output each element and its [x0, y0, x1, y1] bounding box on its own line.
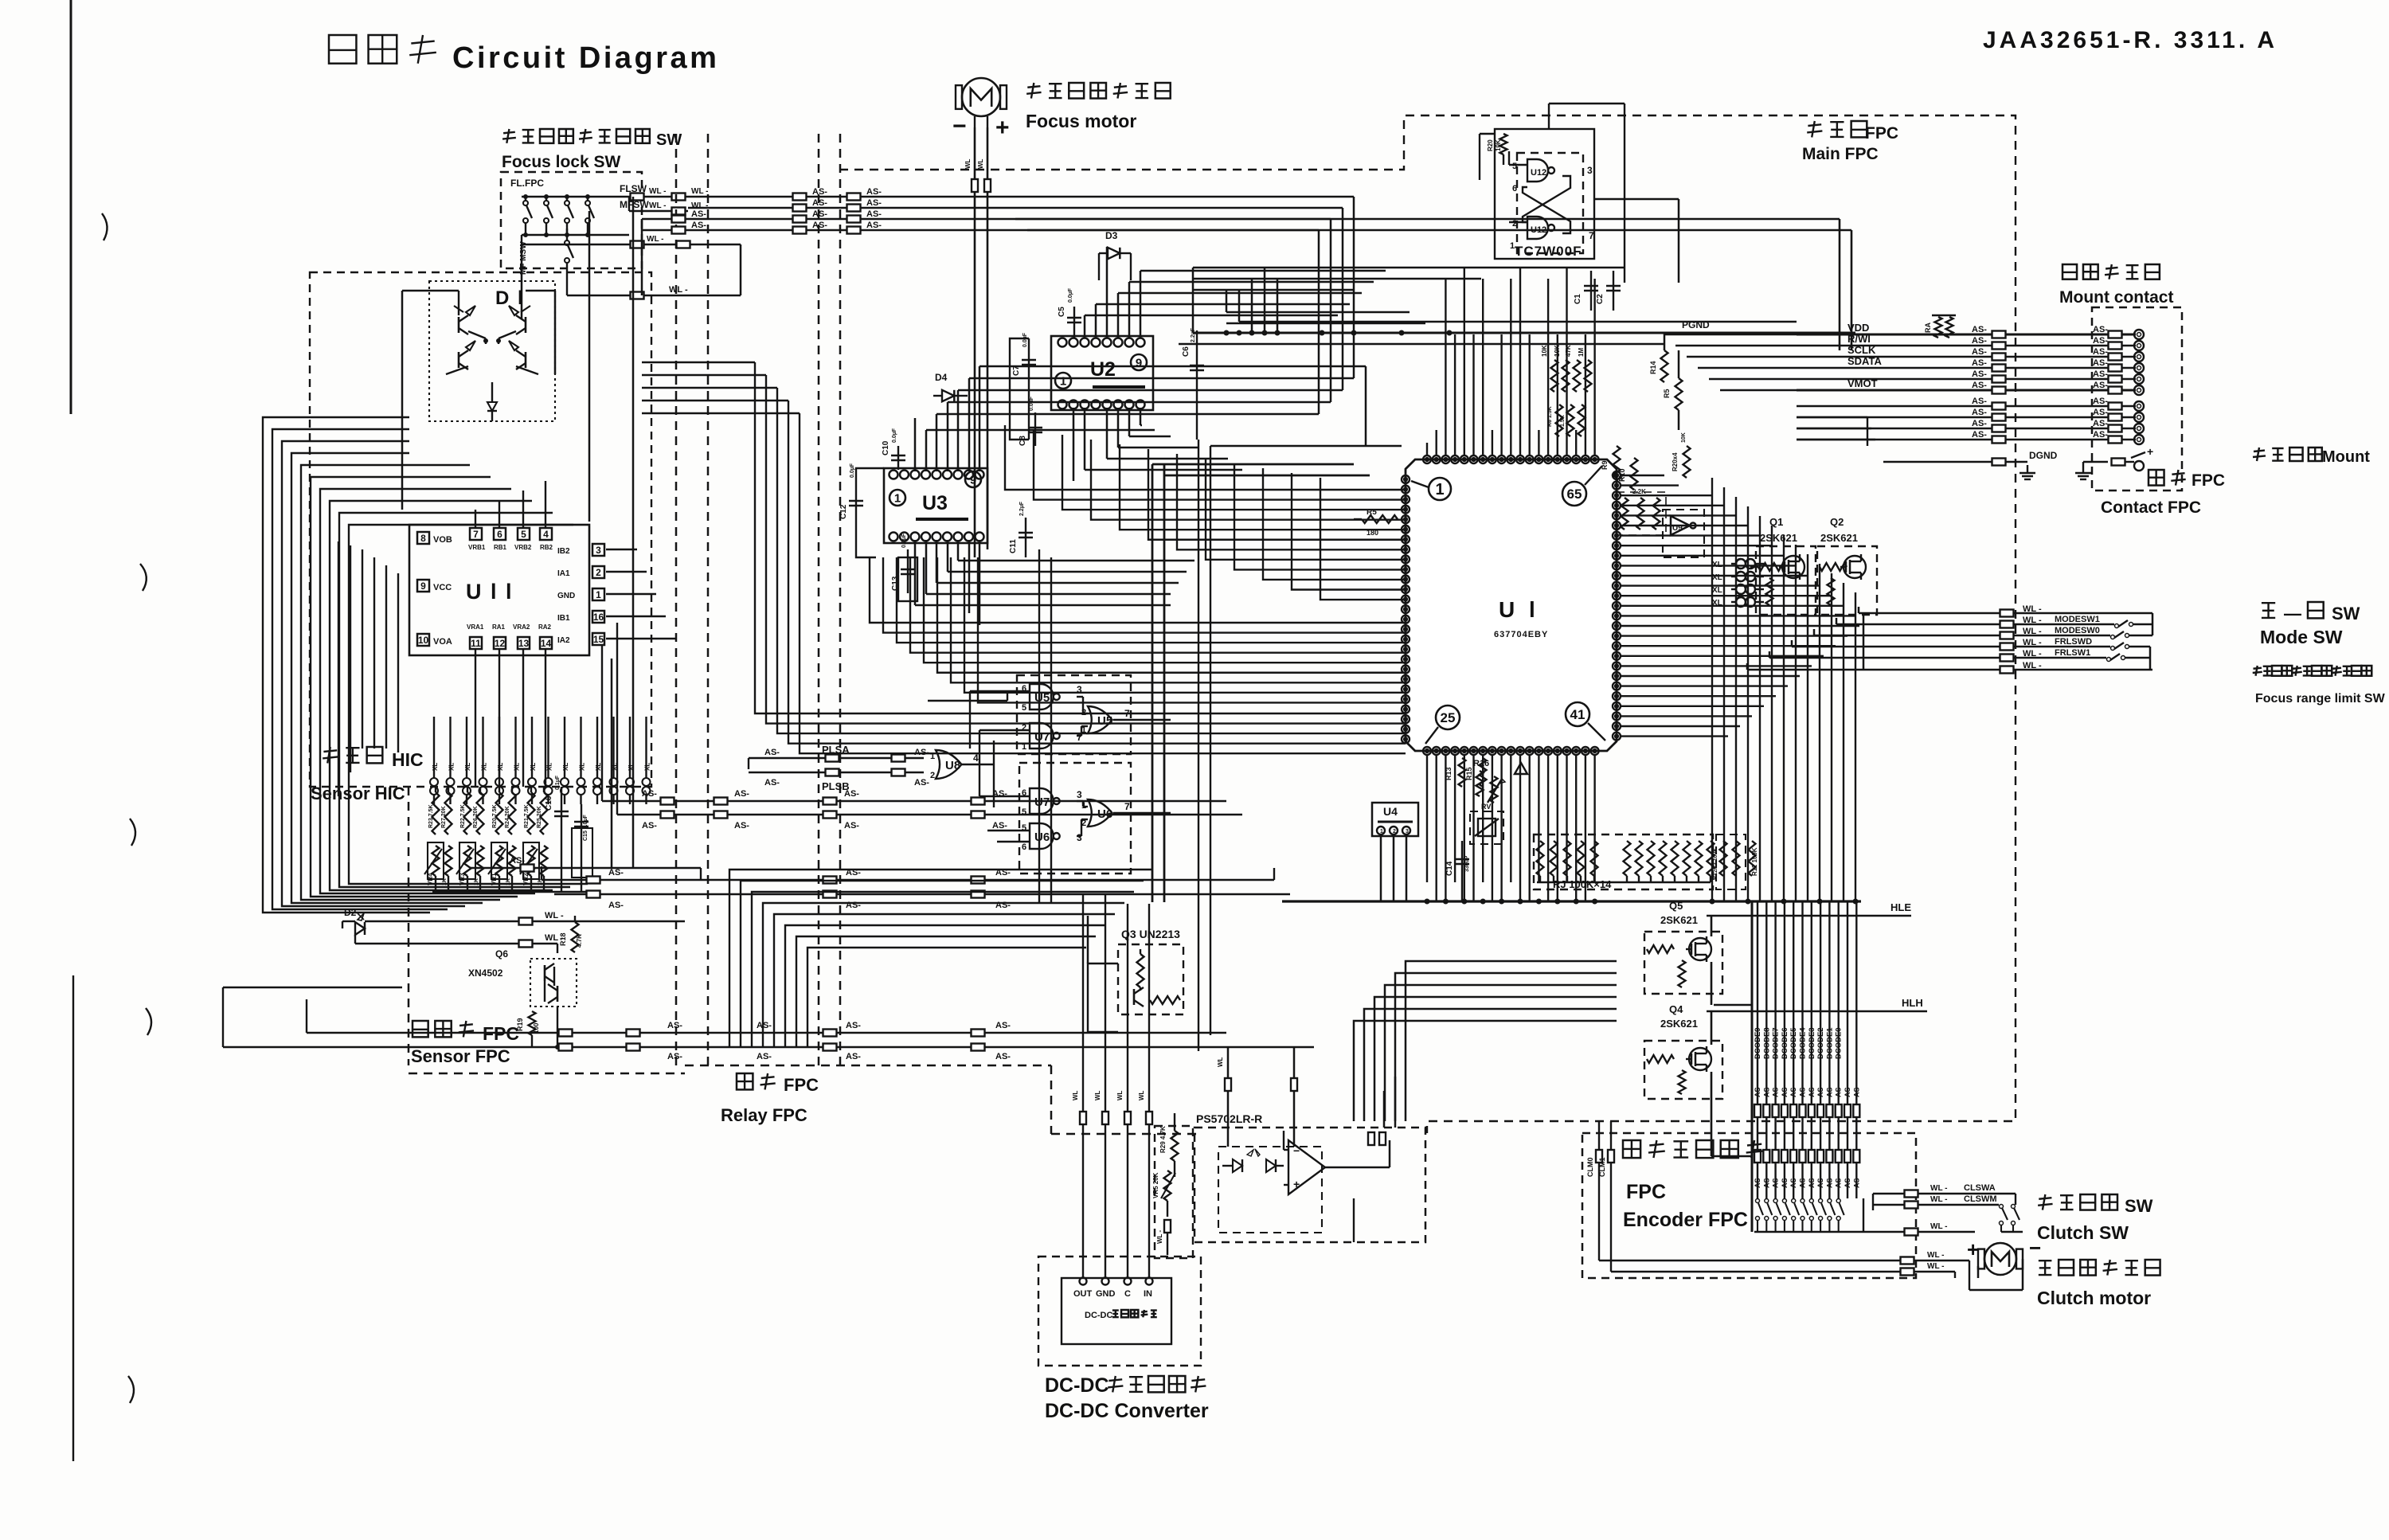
svg-text:14: 14 [541, 638, 552, 649]
DC-DC dashed box [1038, 1257, 1201, 1366]
resistor R19 [516, 1011, 540, 1035]
svg-text:AS-: AS- [1844, 1175, 1851, 1188]
sensor FPC wires [532, 1006, 560, 1049]
Q3 frame wires [1088, 916, 1118, 1032]
label clutch SW [2037, 1194, 2153, 1243]
svg-text:IB1: IB1 [557, 614, 570, 623]
FRL SW contacts [2014, 643, 2152, 670]
wire relay row A [602, 645, 1226, 805]
Q4 2SK621 [1644, 1011, 1752, 1156]
svg-text:AS-: AS- [1808, 1085, 1816, 1097]
wire trunk pair A [1152, 464, 1370, 902]
svg-text:AS-: AS- [667, 1052, 682, 1061]
IC U3 [884, 468, 987, 543]
svg-text:Encoder FPC: Encoder FPC [1623, 1209, 1748, 1231]
svg-text:Focus lock SW: Focus lock SW [502, 153, 621, 171]
svg-text:10K: 10K [1495, 139, 1502, 151]
svg-text:AS-: AS- [1754, 1175, 1761, 1188]
wire bundle U1 left fan [1005, 425, 1406, 600]
contact FPC dashed box [2092, 307, 2182, 491]
svg-text:C10: C10 [882, 440, 890, 455]
wire DC-DC in GND [1094, 894, 1108, 1278]
svg-text:U3: U3 [922, 492, 948, 514]
svg-text:1K: 1K [474, 878, 479, 885]
wire DC-DC in C [1116, 904, 1131, 1278]
svg-text:—: — [2284, 604, 2301, 623]
svg-text:WL -: WL - [1927, 1262, 1944, 1271]
svg-text:5: 5 [1022, 703, 1026, 713]
svg-text:6: 6 [497, 529, 502, 540]
svg-text:AS-: AS- [866, 187, 882, 197]
wire CLSWM [1873, 1194, 1999, 1209]
wire bundle right verticals [1712, 478, 1855, 901]
svg-text:AS-: AS- [812, 221, 827, 230]
svg-text:8: 8 [420, 533, 426, 544]
wire bus AS extension right [1015, 219, 1851, 350]
resistor network R1-R4 [1541, 345, 1592, 392]
svg-text:R21 7.5K: R21 7.5K [524, 804, 530, 828]
svg-text:5: 5 [521, 529, 526, 540]
wire bundle mid verticals [642, 362, 800, 605]
svg-text:VOB: VOB [433, 535, 452, 545]
wire MF switch out [567, 285, 741, 299]
svg-text:9: 9 [1136, 356, 1142, 369]
svg-text:Mode SW: Mode SW [2260, 627, 2343, 647]
svg-text:2SK621: 2SK621 [1820, 532, 1858, 544]
wire bundle U1 right fan [1621, 475, 1859, 737]
svg-text:DCODE8: DCODE8 [1762, 1027, 1771, 1059]
label DC-DC converter [1045, 1374, 1209, 1422]
wire HLH [1707, 997, 1927, 1011]
resistor R13 [1445, 758, 1466, 787]
svg-text:HIC: HIC [392, 749, 424, 770]
capacitor C6 [1182, 327, 1204, 440]
svg-text:2SK621: 2SK621 [1760, 532, 1797, 544]
resistor network R12K2 [1713, 834, 1746, 889]
sensor HIC dashed box [310, 272, 651, 787]
inverter U9 [1671, 516, 1696, 535]
svg-text:WL -: WL - [669, 285, 688, 295]
wire bundle U1 left fan lowest [755, 605, 1406, 753]
svg-text:AS-: AS- [2093, 347, 2108, 357]
wire clutch common [1863, 1222, 1975, 1236]
svg-text:2: 2 [1393, 829, 1396, 834]
resistor network RN pulls [1617, 492, 1666, 535]
svg-text:HLE: HLE [1890, 901, 1911, 913]
svg-text:SCLK: SCLK [1847, 344, 1876, 356]
svg-text:C5: C5 [1058, 307, 1066, 317]
wire relay strip verticals [522, 197, 633, 868]
svg-text:JAA32651-R. 3311. A: JAA32651-R. 3311. A [1983, 27, 2278, 53]
Q5 2SK621 [1644, 916, 1722, 1005]
svg-text:DCODE9: DCODE9 [1754, 1027, 1762, 1059]
svg-text:Relay FPC: Relay FPC [721, 1105, 807, 1125]
svg-text:10K: 10K [1681, 432, 1687, 443]
svg-text:AS-: AS- [2093, 397, 2108, 406]
svg-text:D4: D4 [935, 372, 948, 383]
gate U8 [930, 750, 979, 780]
svg-text:AS-: AS- [510, 856, 525, 866]
svg-text:+: + [1967, 1237, 1979, 1261]
wire U2 bottom fan [1073, 408, 1242, 481]
svg-text:U l l: U l l [466, 580, 514, 604]
svg-text:GND: GND [557, 592, 575, 600]
svg-text:SW: SW [2332, 604, 2360, 623]
svg-text:DC-DC: DC-DC [1045, 1374, 1109, 1397]
wire bundle U1 top pins up [1427, 268, 1595, 455]
svg-text:2SK621: 2SK621 [1660, 914, 1698, 926]
mount contact wire 5 [1797, 369, 2144, 384]
svg-text:DCODE5: DCODE5 [1789, 1027, 1798, 1059]
svg-text:AS-: AS- [764, 748, 780, 757]
DC-DC pins [1073, 1278, 1153, 1300]
svg-text:10K: 10K [1541, 345, 1548, 357]
svg-text:DCODE7: DCODE7 [1772, 1027, 1781, 1059]
mount contact wire 9 [1797, 419, 2144, 433]
wire U2 left frame [1010, 338, 1197, 440]
label focus lock SW [502, 129, 682, 171]
svg-text:FPC: FPC [2192, 471, 2225, 490]
resistor network RJ 100Kx14 [1534, 834, 1715, 890]
svg-text:AS-: AS- [914, 778, 929, 788]
svg-text:R27 20K: R27 20K [441, 806, 447, 828]
svg-text:VRB2: VRB2 [514, 544, 532, 551]
svg-text:0.0µF: 0.0µF [850, 463, 855, 478]
label mount [2253, 448, 2370, 466]
svg-text:R12K2 100K: R12K2 100K [1713, 848, 1718, 880]
svg-text:AS-: AS- [2093, 369, 2108, 379]
svg-text:−: − [2029, 1236, 2041, 1260]
svg-text:R29 4.7K: R29 4.7K [1159, 1126, 1167, 1153]
wire bundle sensor verticals [436, 669, 494, 1065]
svg-text:XN4502: XN4502 [468, 967, 503, 979]
U11 label [466, 580, 514, 604]
Q5 label [1660, 900, 1698, 926]
svg-text:AS-: AS- [1754, 1085, 1761, 1097]
svg-text:VRA2: VRA2 [513, 623, 530, 631]
relay FPC dashed strip right [819, 134, 840, 1065]
svg-text:R18: R18 [559, 932, 567, 946]
svg-text:2SK621: 2SK621 [1660, 1018, 1698, 1030]
nand U6a [1022, 823, 1082, 852]
svg-text:R26 20K: R26 20K [473, 806, 479, 828]
svg-text:AS-: AS- [1799, 1085, 1807, 1097]
wire bus risers [1462, 882, 1593, 901]
svg-text:MF MSW: MF MSW [519, 241, 528, 275]
svg-text:Q4: Q4 [1669, 1003, 1683, 1015]
svg-text:FRLSWD: FRLSWD [2055, 637, 2092, 647]
capacitor C15 [572, 804, 592, 892]
svg-text:C2: C2 [1596, 294, 1605, 304]
svg-text:MFSW: MFSW [620, 199, 649, 210]
svg-text:AS-: AS- [812, 187, 827, 197]
wire PS feed [1217, 1047, 1297, 1147]
svg-text:Mount contact: Mount contact [2059, 288, 2173, 307]
svg-text:AS-: AS- [1972, 430, 1987, 440]
svg-text:AS-: AS- [1972, 336, 1987, 346]
RA resistor pair [1924, 315, 1956, 338]
wire PLSB [749, 769, 929, 793]
svg-text:C8: C8 [1019, 436, 1027, 446]
svg-text:RB2: RB2 [540, 544, 553, 551]
wire trunk pair B [1039, 549, 1051, 904]
svg-text:Clutch motor: Clutch motor [2037, 1288, 2151, 1308]
svg-text:WL: WL [1217, 1057, 1224, 1067]
svg-text:R19: R19 [516, 1018, 524, 1031]
svg-text:TC7W00F: TC7W00F [1515, 244, 1582, 259]
svg-text:AS-: AS- [1762, 1085, 1770, 1097]
Q2 label [1820, 516, 1858, 544]
svg-text:CLSWM: CLSWM [1964, 1194, 1997, 1204]
mount contact wire 7 [1797, 397, 2144, 411]
doc number JAA32651-R.3311.A [1983, 27, 2278, 53]
Q3 area dashed box [1155, 1126, 1193, 1258]
wire sensor out B [223, 987, 1314, 1061]
svg-text:AS-: AS- [866, 209, 882, 219]
svg-text:4.7K: 4.7K [576, 934, 583, 948]
svg-text:XL: XL [1712, 586, 1722, 595]
svg-text:4: 4 [543, 529, 549, 540]
label main FPC [1802, 121, 1898, 163]
svg-text:FRLSW1: FRLSW1 [2055, 648, 2090, 658]
svg-text:SW: SW [2125, 1196, 2153, 1216]
scan curl mark 1 [102, 213, 108, 240]
svg-text:CLM1: CLM1 [1598, 1158, 1606, 1178]
label clutch motor [2037, 1260, 2160, 1308]
svg-text:1: 1 [1435, 481, 1444, 498]
svg-text:41: 41 [1570, 707, 1585, 722]
MF MSW switch [519, 229, 573, 295]
Q1 2SK621 [1750, 546, 1816, 615]
svg-text:IA2: IA2 [557, 636, 570, 645]
svg-text:VRA1: VRA1 [467, 623, 484, 631]
svg-text:R16: R16 [1473, 759, 1489, 768]
capacitor C5 [1058, 287, 1081, 338]
U11 pin stubs [475, 481, 675, 787]
svg-text:1: 1 [596, 589, 601, 600]
svg-text:7: 7 [1589, 230, 1594, 241]
svg-text:AS-: AS- [2093, 408, 2108, 417]
wire bundle U11 verticals [338, 541, 398, 796]
U11 right pins [557, 544, 604, 645]
mount contact wire VDD [1797, 322, 2144, 339]
svg-text:OUT: OUT [1073, 1289, 1093, 1299]
sensor bottom bus [432, 891, 593, 893]
focus motor wire pair [964, 127, 991, 557]
svg-text:2: 2 [930, 771, 935, 780]
resistor VR5 [1152, 1171, 1175, 1255]
svg-text:AS-: AS- [667, 1021, 682, 1030]
encoder bottom bus [1714, 901, 1863, 1232]
mount gnd pin [2112, 445, 2154, 471]
mode SW contacts [2014, 613, 2152, 639]
svg-text:IN: IN [1144, 1289, 1152, 1299]
focus motor minus [952, 113, 967, 139]
IC U2 [1051, 336, 1153, 410]
svg-text:R5: R5 [1663, 389, 1671, 398]
wire relay mid rows [542, 866, 1290, 910]
svg-text:+: + [995, 115, 1010, 141]
svg-text:Sensor HIC: Sensor HIC [311, 784, 405, 803]
relay FPC dashed strip left [676, 134, 708, 1065]
scan curl mark 2 [140, 564, 147, 591]
svg-text:13: 13 [518, 638, 530, 649]
wire bus AS quad [642, 187, 1354, 414]
svg-text:AS-: AS- [866, 221, 882, 230]
svg-text:VR4: VR4 [427, 873, 434, 885]
svg-text:AS-: AS- [2093, 336, 2108, 346]
svg-text:AS-: AS- [1799, 1175, 1807, 1188]
wire CLM0 [1586, 1147, 1969, 1264]
capacitor C16 [545, 775, 569, 892]
resistor R11 100K [1749, 841, 1759, 876]
svg-text:WL -: WL - [1930, 1195, 1947, 1204]
nand U12b [1527, 217, 1554, 239]
svg-text:3: 3 [1077, 789, 1082, 800]
label PS5702LR-R [1196, 1112, 1262, 1125]
diode D4 [933, 372, 968, 401]
svg-text:HLH: HLH [1902, 997, 1923, 1009]
svg-text:Q2: Q2 [1830, 516, 1844, 528]
svg-text:0.0µF: 0.0µF [901, 533, 907, 548]
wire MFSW out [620, 197, 708, 215]
opto diode pair [1222, 1149, 1284, 1172]
svg-text:AS-: AS- [1852, 1175, 1860, 1188]
U1 pin25 marker [1425, 706, 1460, 744]
resistor R15 [1465, 751, 1487, 787]
Q1 label [1760, 516, 1797, 544]
svg-text:2: 2 [1512, 219, 1517, 229]
svg-text:R22 7.5K: R22 7.5K [460, 804, 466, 828]
svg-text:DC-DC Converter: DC-DC Converter [1045, 1400, 1209, 1422]
clutch motor wires [1955, 1259, 2023, 1290]
wire U3 bottom fan [904, 540, 1194, 625]
D1 internal wires [446, 309, 538, 374]
wire bundle U1 left fan lower [870, 557, 1406, 702]
encoder FPC dashed box [1582, 1133, 1916, 1278]
svg-text:U12: U12 [1531, 225, 1546, 235]
svg-text:Q6: Q6 [495, 948, 508, 960]
svg-text:XL: XL [579, 763, 586, 771]
resistor R29 4.7K [1159, 1113, 1179, 1177]
svg-text:WL: WL [1094, 1090, 1101, 1100]
svg-text:WL -: WL - [1930, 1184, 1947, 1193]
svg-text:0.0µF: 0.0µF [1029, 396, 1034, 411]
focus motor plus [995, 115, 1010, 141]
svg-text:2.2µF: 2.2µF [1019, 501, 1025, 516]
mount contact wire 10 [1797, 430, 2144, 444]
RV trimmer [1470, 803, 1503, 844]
svg-text:1: 1 [1060, 374, 1066, 388]
svg-text:AS-: AS- [846, 1052, 861, 1061]
svg-text:AS-: AS- [995, 1021, 1011, 1030]
svg-text:VR3: VR3 [459, 873, 466, 885]
svg-text:AS-: AS- [757, 1021, 772, 1030]
svg-text:RJ 100K×14: RJ 100K×14 [1553, 878, 1612, 890]
focus lock SW bottom bus wire [522, 234, 629, 236]
D1 feed wires [402, 291, 555, 510]
wire D2 cathode [355, 933, 564, 953]
label focus range limit SW [2253, 666, 2386, 706]
label TC7W00F [1515, 244, 1582, 259]
resistor R20 10K [1487, 134, 1509, 165]
wire DC-DC in IN [1138, 904, 1152, 1278]
svg-text:C11: C11 [1009, 539, 1018, 553]
focus lock switch S4 [585, 195, 594, 237]
svg-text:U l: U l [1499, 597, 1539, 622]
svg-text:GND: GND [1096, 1289, 1116, 1299]
svg-text:65: 65 [1567, 487, 1582, 502]
capacitor C11 [1009, 501, 1033, 557]
IC U4 [1372, 803, 1418, 836]
label mode SW [2260, 602, 2360, 647]
mount contact wire 8 [1797, 408, 2144, 422]
svg-text:AS-: AS- [1825, 1085, 1833, 1097]
wire bundle U1 bottom pins [1427, 755, 1595, 901]
resistor R20x4 [1672, 432, 1691, 478]
wire U3 top fan [904, 366, 1366, 471]
capacitor C7 [1012, 332, 1051, 440]
svg-text:AS-: AS- [608, 901, 624, 910]
svg-text:U6: U6 [1034, 831, 1050, 844]
svg-text:DCODE6: DCODE6 [1781, 1027, 1789, 1059]
U11 pin 10 VOA [417, 634, 452, 647]
svg-text:AS-: AS- [1972, 381, 1987, 390]
nand U5a [1022, 684, 1082, 713]
scan curl mark 5 [128, 1376, 134, 1403]
svg-text:−: − [952, 113, 967, 139]
svg-text:6: 6 [1512, 184, 1517, 193]
svg-text:U5: U5 [1097, 714, 1112, 728]
gate cluster dashed box A [1017, 675, 1131, 754]
PS5702 inner dashed box [1218, 1147, 1322, 1233]
svg-text:R9: R9 [1601, 460, 1609, 470]
label mount contact [2059, 264, 2173, 307]
scan edge artifact [71, 0, 73, 1461]
svg-text:WL -: WL - [649, 187, 666, 196]
svg-text:XL: XL [628, 763, 635, 771]
wire PGND bus [1179, 319, 1855, 344]
resistor R16 [1473, 759, 1489, 811]
svg-text:0.0µF: 0.0µF [1022, 332, 1028, 347]
focus lock switch S3 [565, 195, 573, 237]
relay FPC bottom dashed [409, 1065, 1198, 1134]
svg-text:AS-: AS- [1772, 1175, 1780, 1188]
svg-text:1: 1 [894, 491, 901, 505]
svg-text:DCODE3: DCODE3 [1808, 1027, 1816, 1059]
diode D1e [487, 382, 497, 421]
svg-text:11: 11 [471, 638, 481, 649]
svg-text:RA: RA [1924, 322, 1932, 333]
svg-text:AS-: AS- [844, 821, 859, 831]
capacitor C14 [1445, 841, 1470, 884]
Q4 label [1660, 1003, 1698, 1030]
svg-text:AS-: AS- [846, 1021, 861, 1030]
svg-text:AS-: AS- [1972, 369, 1987, 379]
svg-text:AS-: AS- [1772, 1085, 1780, 1097]
title kanji Circuit Diagram [329, 35, 719, 75]
wire TC out right [1594, 199, 1679, 283]
focus lock switch S2 [544, 195, 553, 237]
wire FL common out [522, 235, 741, 248]
sensor resistor network [424, 787, 548, 892]
encoder DCODE wires [1754, 901, 1860, 1198]
mount contact wire SDATA [1797, 355, 2144, 373]
transistor Q3 UN2213 [1118, 928, 1183, 1014]
svg-text:FPC: FPC [1865, 124, 1898, 143]
capacitor C2 [1596, 271, 1621, 311]
U11 top pins 7654 [468, 528, 553, 551]
